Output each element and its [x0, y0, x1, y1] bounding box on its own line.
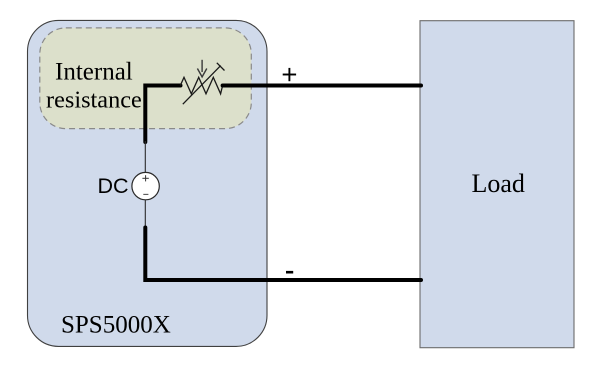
- DC voltage source circle: [132, 172, 159, 199]
- svg-text:Load: Load: [472, 169, 525, 198]
- trimmer T-bar at diagonal end: [217, 63, 225, 71]
- + terminal label: [283, 68, 296, 81]
- wire: resistor right terminal to Load (+ wire): [223, 84, 421, 88]
- adjustment down-arrow shaft: [201, 60, 203, 72]
- svg-text:SPS5000X: SPS5000X: [61, 312, 171, 339]
- svg-text:Internal: Internal: [55, 59, 133, 86]
- svg-text:DC: DC: [98, 174, 129, 198]
- load box: [420, 21, 574, 348]
- power supply enclosure box SPS5000X: [28, 20, 268, 346]
- adjustment down-arrow head: [197, 69, 206, 77]
- thin lead wire above DC source: [144, 141, 146, 173]
- DC source + mark: [142, 175, 148, 181]
- wire: from resistor left terminal to DC source (thick L): [145, 86, 180, 143]
- wire: DC source to Load (- wire, thick L): [145, 228, 421, 281]
- - terminal label: [286, 271, 293, 274]
- DC source - mark: [143, 193, 148, 195]
- svg-text:resistance: resistance: [46, 87, 142, 114]
- internal resistance region (dashed): [40, 28, 252, 129]
- resistor adjustment diagonal (trimmer slash): [183, 66, 221, 105]
- resistor R internal (zigzag): [180, 77, 222, 94]
- thin lead wire below DC source: [144, 200, 146, 228]
